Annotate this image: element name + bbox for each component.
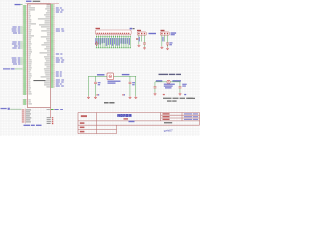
U1 right pin numbers — [51, 5, 56, 110]
C3 value — [98, 82, 101, 83]
P3 wire 2 — [163, 35, 166, 41]
capacitor C6 — [179, 86, 182, 89]
capacitor C1 — [143, 42, 146, 45]
ground P3 b — [166, 47, 169, 48]
ground X left a — [87, 96, 90, 97]
wire U1 bottom right — [49, 108, 52, 118]
note text center — [104, 102, 109, 104]
P2 wire 2 — [140, 35, 143, 41]
junction P3 — [167, 44, 168, 47]
ground P2 a — [138, 44, 141, 45]
P3 wire 1 — [161, 35, 164, 46]
net labels right cluster 3 — [56, 58, 64, 63]
key right small text — [182, 84, 186, 85]
C2 wire — [166, 45, 169, 48]
wire OSC_IN — [88, 75, 107, 78]
C1 wire — [143, 45, 146, 47]
wire left down — [87, 76, 90, 96]
net label right single A — [0, 0, 1, 1]
note flag red — [163, 94, 165, 95]
U2 value label — [24, 125, 31, 126]
text page — [129, 121, 135, 123]
date row3 — [184, 119, 192, 120]
title block frame — [78, 113, 200, 134]
note flag blue — [184, 94, 186, 95]
P3 net label — [171, 32, 177, 33]
C2 value — [169, 42, 172, 43]
P2 designator — [137, 30, 141, 31]
P1 wires — [96, 37, 131, 48]
title sub row3 label — [163, 119, 170, 120]
crystal X1 — [107, 73, 114, 80]
net labels left cluster 2 — [12, 42, 23, 49]
crystal caption flag right — [122, 94, 123, 95]
key circuit title — [159, 74, 169, 75]
power flag VCC — [95, 41, 98, 43]
P2 value text — [136, 38, 138, 39]
note text right line2 — [167, 100, 172, 101]
LED D1 — [167, 80, 170, 83]
title row 审核 — [80, 127, 85, 129]
ground X right b — [135, 96, 138, 97]
P3 net label vertical — [163, 37, 164, 42]
P1 designator — [96, 28, 101, 29]
svg-text:gzhi07: gzhi07 — [164, 128, 173, 132]
connector P3 — [160, 32, 169, 35]
net labels left cluster 3 — [12, 58, 23, 65]
wire VBUS top — [26, 2, 60, 5]
connector P2 — [137, 32, 146, 35]
P3 designator — [161, 30, 165, 31]
text file number — [164, 122, 172, 123]
net label NRST — [1, 108, 7, 109]
wire key right down — [179, 82, 182, 87]
title 系统原理图 — [117, 114, 131, 117]
ground key left — [154, 93, 157, 94]
net label OSC_IN — [97, 74, 105, 75]
title row 设计 — [80, 122, 85, 124]
net label right single B — [56, 54, 63, 55]
wire right down — [135, 76, 138, 96]
title sub row1 label — [163, 113, 170, 114]
net labels right cluster 1 — [56, 8, 64, 13]
P2 wire 3 — [143, 35, 146, 42]
P3 wire 3 — [166, 35, 169, 42]
capacitor C4 — [129, 81, 132, 84]
node 5V flag — [130, 28, 133, 30]
net labels right cluster 5 — [56, 80, 64, 87]
P1 pin name texts — [97, 33, 130, 34]
title row 工艺 — [80, 131, 85, 133]
wire key left down — [154, 82, 157, 87]
C3 wire down — [94, 84, 97, 96]
net label top VBUS — [15, 4, 23, 5]
node flag left — [8, 108, 10, 110]
P1 net labels — [95, 38, 129, 46]
regulator U2 — [22, 109, 54, 125]
ground key right — [179, 93, 182, 94]
title /片 — [124, 118, 129, 119]
P2 net label vertical 1 — [139, 37, 140, 42]
net labels right cluster 4 — [56, 72, 62, 77]
net label key right — [172, 80, 181, 81]
U1 pin name row bottom — [33, 80, 45, 81]
U1 right pin names — [38, 5, 50, 110]
title sub row2 label — [163, 116, 170, 117]
wire OSC_OUT — [114, 75, 137, 78]
C5 wire — [154, 88, 157, 92]
title cell 设计者 — [81, 115, 87, 117]
ground X right a — [129, 96, 132, 97]
connector P1 — [96, 30, 132, 35]
key value text block — [164, 84, 175, 85]
ground P2 b — [143, 47, 146, 48]
wire cap left branch — [94, 76, 97, 82]
net label OSC_OUT — [122, 74, 130, 75]
net labels right cluster 2 — [56, 29, 64, 32]
X1 value label — [108, 81, 121, 82]
wire cap right branch — [129, 76, 132, 82]
ground P3 a — [161, 46, 164, 47]
U1 designator — [26, 1, 32, 2]
op-amp U1 — [28, 4, 51, 108]
ground X left b — [94, 96, 97, 97]
U1 left pin names — [28, 6, 36, 105]
C4 wire down — [129, 84, 132, 96]
crystal caption flag left — [97, 94, 98, 95]
date row2 — [184, 116, 192, 117]
P2 net label — [149, 33, 157, 34]
net label key left — [156, 80, 162, 81]
P2 wire 1 — [138, 35, 141, 44]
C6 wire — [179, 88, 182, 92]
capacitor C5 — [154, 86, 157, 89]
net label SWD — [3, 68, 10, 69]
wire to U2 pin1 — [10, 108, 21, 111]
net labels left cluster 1 — [12, 27, 23, 34]
net label right bottom — [55, 109, 63, 110]
wire key left — [155, 81, 167, 84]
capacitor C3 — [94, 81, 97, 84]
U1 left pin numbers — [23, 6, 28, 105]
P1 pin numbers — [96, 35, 131, 37]
capacitor C2 — [166, 42, 169, 45]
date row1 — [184, 113, 192, 114]
C4 value — [132, 82, 135, 83]
wire key right — [170, 81, 180, 84]
note text right line1 — [163, 98, 172, 99]
